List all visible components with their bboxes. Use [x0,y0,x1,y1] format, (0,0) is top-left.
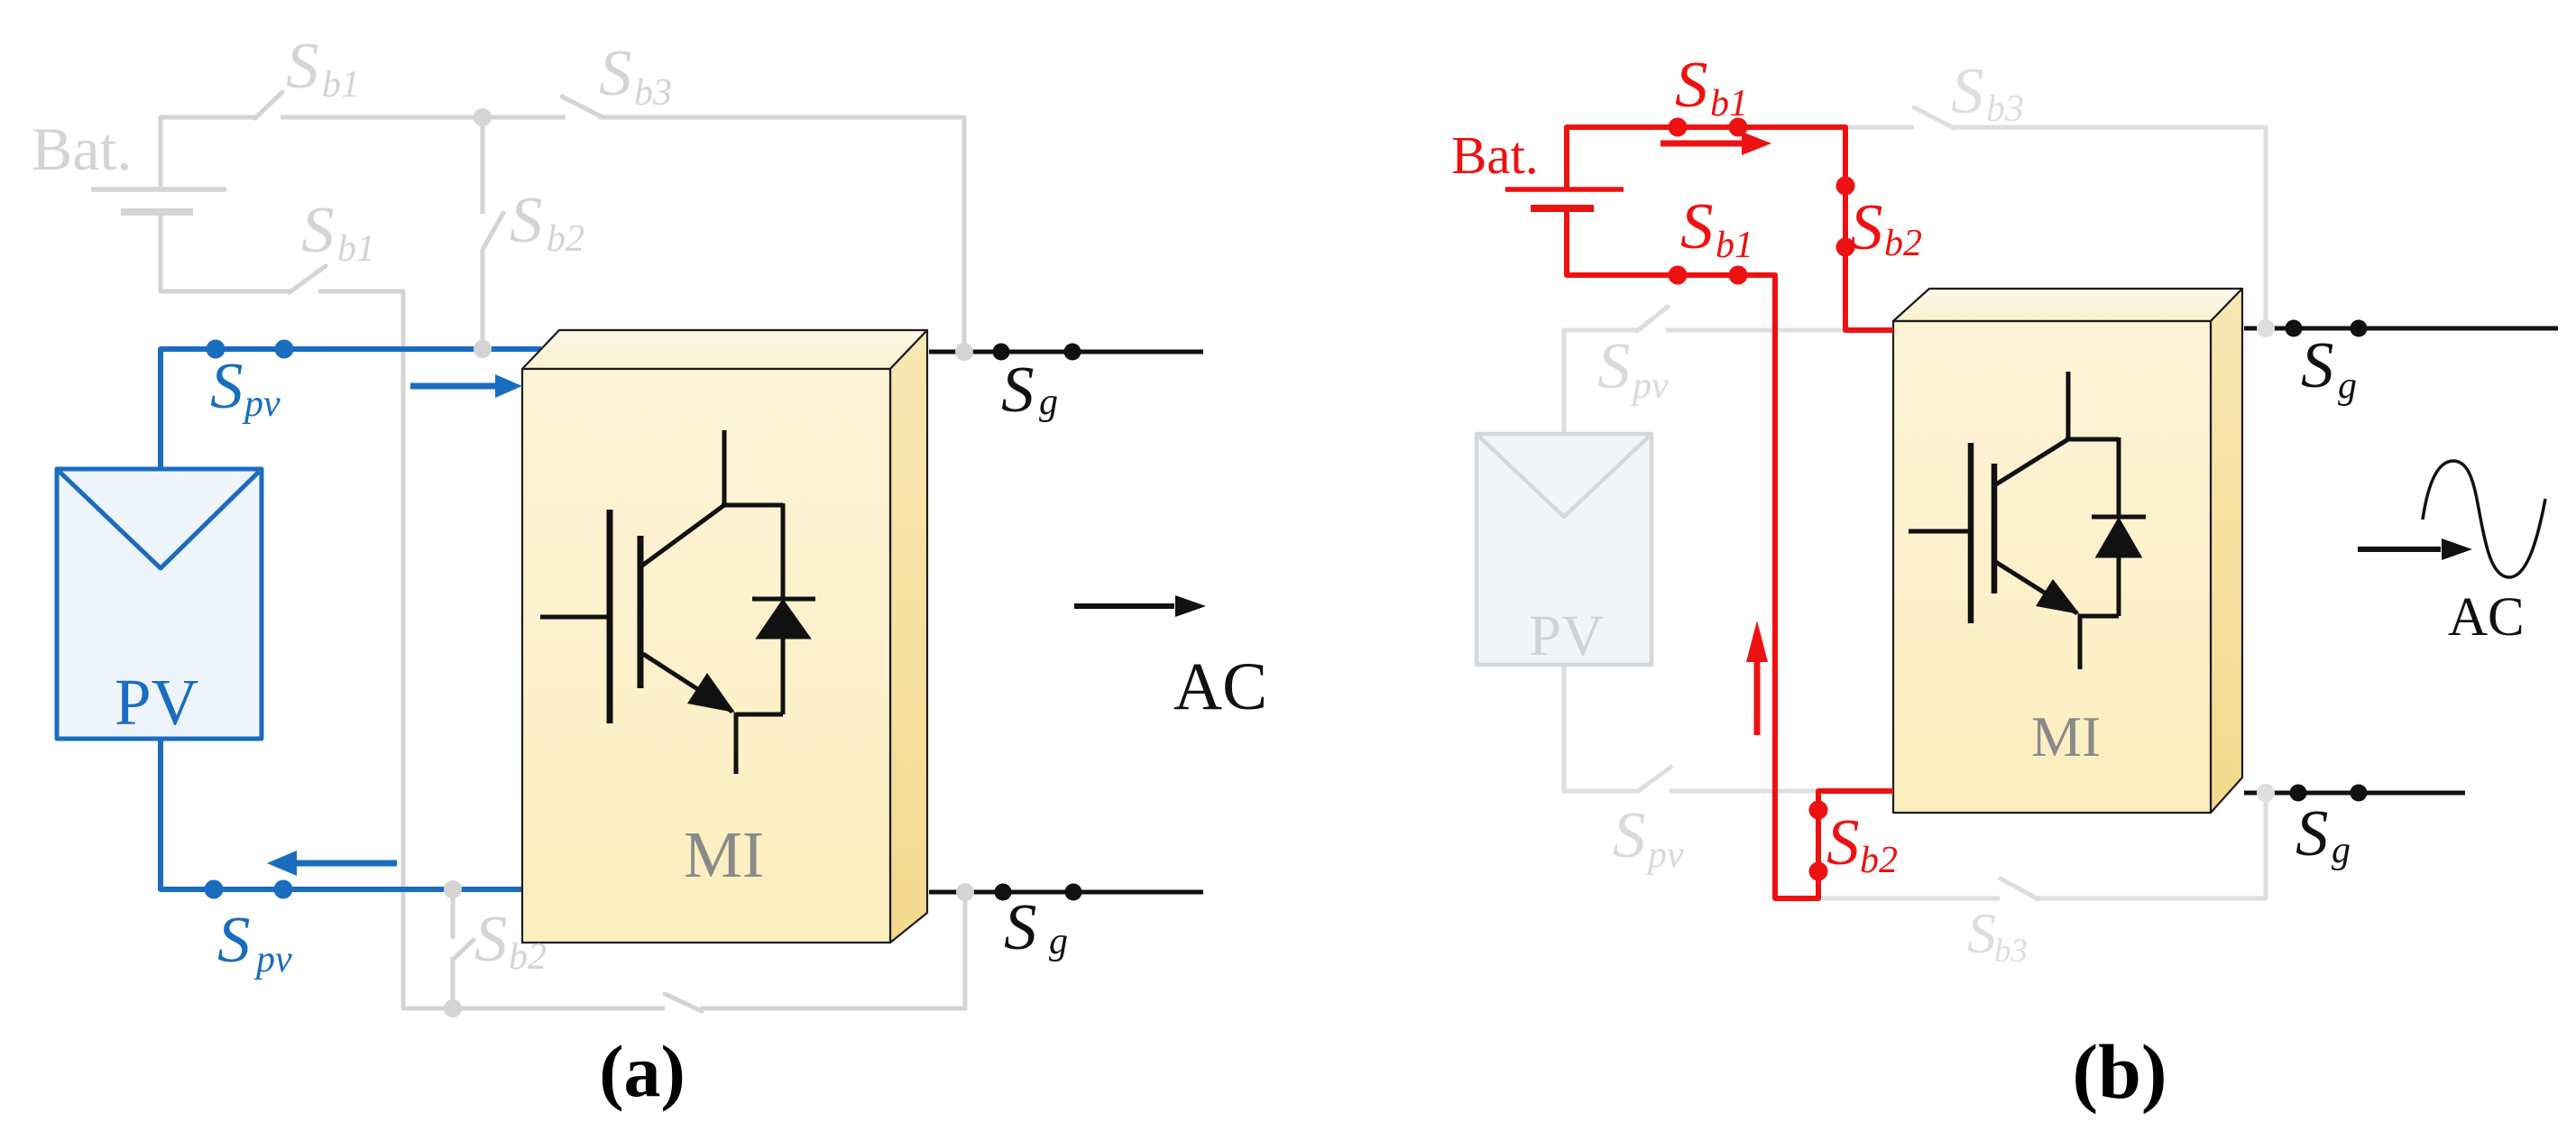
diode D1 cathode bar [752,597,815,602]
svg-text:b3: b3 [1994,933,2028,970]
battery Bat. short plate [121,208,193,216]
IGBT gate bar [607,510,613,723]
wire: battery top lead to Sb1 top [161,117,255,190]
node: Sg top / Sb3 (b) [2257,319,2275,337]
grid wire Sg bottom (panel a) [929,890,1203,895]
wire: battery bottom lead to Sb1 lower [161,216,290,291]
svg-text:b1: b1 [322,64,360,106]
MI front face (panel b) [1893,321,2211,813]
svg-text:pv: pv [1630,365,1669,407]
svg-text:Bat.: Bat. [32,115,132,183]
svg-text:b2: b2 [509,936,547,978]
svg-text:b1: b1 [1710,83,1748,124]
svg-text:AC: AC [1173,649,1267,724]
wire: Sb3 top right segment down to Sg top node [1952,127,2266,327]
wire: Sb2 bottom branch lower lead to bottom rail [451,957,455,1008]
blue arrow out of MI bottom (panel a) [295,860,397,867]
svg-text:S: S [210,349,244,422]
svg-text:(b): (b) [2072,1028,2167,1115]
PV module box (panel a) [57,469,262,739]
diode D1 triangle [759,603,807,637]
IGBT gate lead [540,615,607,620]
IGBT gate lead (b) [1909,529,1971,534]
grid wire Sg top (panel b) [2244,327,2558,331]
diode D2 bottom lead [2117,554,2121,616]
svg-text:S: S [301,193,335,266]
wire: battery+ to Sb1 top closed to Sb2 top (red) [1567,127,1893,330]
svg-text:b3: b3 [634,72,672,114]
switch Sg contact dots (panel a) [993,344,1082,901]
AC sine wave (panel b) [2423,461,2545,577]
IGBT emitter diagonal [643,654,732,712]
switch Sb1 bottom closed dots [1669,266,1688,285]
svg-text:S: S [1951,54,1984,127]
node: Sb2 / PV- junction [444,880,462,898]
svg-text:S: S [1004,890,1037,963]
svg-text:g: g [2332,830,2351,871]
PV chevron [60,472,259,568]
grid wire Sg top (panel a) [929,350,1203,354]
microinverter MI box (panel a) [522,330,927,943]
wire: bottom rail right segment up to MI AC bottom node [700,893,965,1008]
svg-text:S: S [1613,798,1646,871]
switch Sg contact dots (panel b) [2286,320,2368,802]
svg-text:S: S [1850,190,1883,263]
PANEL B [1477,107,2266,899]
IGBT collector diagonal [642,505,724,566]
svg-text:(a): (a) [599,1030,685,1112]
wire: Sb3 top (panel b) left segment [1845,125,1914,130]
wire: battery- to Sb1 bottom closed, down and into MI via Sb2 bottom (red) [1567,212,1893,898]
svg-text:b2: b2 [547,218,584,260]
svg-text:g: g [1049,921,1068,962]
node: Sb2 bottom rail junction [444,999,462,1017]
svg-text:pv: pv [1645,834,1684,876]
wire: Sb2 top branch lower lead to PV+ node [481,249,485,350]
svg-text:PV: PV [115,666,198,739]
wire: Spv bottom branch left [1564,665,1638,791]
node: Sb2 top junction [474,108,492,126]
IGBT emitter terminal (b) [2078,614,2083,669]
diode D1 bottom lead [781,635,786,714]
wire: PV+ blue top [161,349,541,469]
grid wire Sg bottom (panel b) [2244,791,2465,796]
switch Sb2 bottom branch upper lead [451,890,455,939]
diode D2 top lead [2117,437,2121,517]
svg-text:pv: pv [253,939,292,980]
svg-text:b1: b1 [337,228,375,270]
svg-text:S: S [1597,329,1631,402]
diode D2 cathode bar [2092,515,2146,520]
MI top face [522,330,927,369]
svg-text:b2: b2 [1884,223,1922,264]
PV module box (panel b) [1477,434,1651,665]
MI top face (panel b) [1893,289,2242,321]
svg-text:g: g [2338,365,2357,407]
red arrow up (panel b) [1754,658,1761,735]
battery Bat. short plate (red) [1531,205,1594,212]
wire: Spv top branch (panel b, open) left [1564,330,1637,435]
IGBT emitter arrowhead (b) [2036,579,2080,614]
switch Sb2 top closed dots [1836,177,1855,196]
svg-text:S: S [474,902,508,975]
svg-text:S: S [2295,796,2329,870]
PV chevron (panel b) [1479,437,1649,517]
microinverter MI box (panel b) [1893,289,2242,813]
switch Sb3 bottom blade (panel b) [2001,879,2038,899]
svg-text:S: S [1680,189,1714,262]
wire: diode bottom to emitter (b) [2080,614,2119,619]
svg-text:S: S [286,29,319,102]
node: MI AC top / Sb3 [955,343,973,361]
switch Sb2 top branch upper lead [481,117,485,214]
red contact dots (panel b) [1669,118,1855,881]
svg-text:S: S [2301,328,2334,401]
svg-text:S: S [510,183,543,256]
svg-text:b1: b1 [1716,225,1753,266]
svg-text:g: g [1039,382,1058,423]
svg-text:AC: AC [2448,587,2525,648]
IGBT emitter arrowhead [687,673,735,713]
IGBT collector terminal (b) [2066,372,2071,440]
svg-text:S: S [1675,48,1708,121]
switch Sb2 bottom closed dots [1809,801,1828,820]
node: Sg bottom / Sb3 (b) [2257,784,2275,802]
AC output arrow (panel a) [1074,603,1174,609]
IGBT U1 (panel a) [540,430,815,774]
svg-text:S: S [1001,353,1035,426]
IGBT U2 (panel b) [1909,372,2146,669]
switch Sb3 top blade (panel b) [1914,107,1954,128]
switch Spv top blade (panel b) [1637,307,1668,331]
svg-text:S: S [217,903,251,976]
IGBT emitter terminal [734,713,739,774]
MI right face [890,330,927,943]
PANEL A [57,92,965,1011]
junction dots gray (panel b) [2257,319,2275,802]
wire: Spv top right segment to MI [1666,328,1849,333]
switch Sb2 top blade (open) [483,213,503,248]
switch Sb3 bottom blade (open) [665,994,702,1011]
diode D1 top lead [781,503,786,599]
svg-text:b3: b3 [1986,88,2024,130]
switch Spv bottom blade (panel b) [1638,767,1671,791]
IGBT body bar [638,536,644,688]
switch Sb1 top closed dots [1669,118,1688,137]
IGBT gate bar (b) [1968,443,1974,623]
blue arrow into MI (panel a) [410,383,498,390]
wire: Sb3 bottom (panel b) left segment [1775,897,2000,901]
AC output arrow (panel b) [2358,547,2441,552]
node: MI AC bottom / rail [956,883,974,901]
IGBT emitter diagonal (b) [1994,561,2077,613]
svg-text:MI: MI [684,818,764,891]
MI right face (panel b) [2211,289,2242,813]
wire: PV- blue bottom [161,739,523,889]
IGBT collector terminal [722,430,727,506]
wire: Sb3 top to MI AC top node [599,117,964,350]
svg-text:S: S [1967,901,1996,965]
diode D2 triangle [2099,521,2139,556]
wire: Sb1 top to Sb3 top [281,115,566,120]
red arrow right (panel b top) [1661,141,1744,147]
wire: collector to diode top (b) [2065,437,2119,442]
node: Sb2 / PV+ junction [474,340,492,358]
junction dots (panel a) [444,108,974,1017]
svg-text:b2: b2 [1860,840,1898,881]
svg-text:S: S [1826,805,1860,879]
switch Sb3 top blade (open) [562,97,601,116]
switch Sb1 lower blade (open) [290,266,326,292]
RED battery path (panel b) [1505,127,1893,898]
switch Sb2 bottom blade (open) [455,940,474,958]
IGBT collector diagonal (b) [1996,439,2068,484]
wire: Sb3 bottom right segment up to Sg bottom node [2037,794,2266,898]
switch Sb1 top blade (open) [255,92,282,118]
MI front face [522,369,890,943]
switch Spv top closed contact dots (panel a) [205,340,294,899]
svg-text:S: S [599,36,632,109]
wire: Spv bottom right segment [1670,789,1820,794]
svg-text:PV: PV [1529,603,1604,668]
svg-text:Bat.: Bat. [1451,125,1539,185]
battery Bat. long plate (red) [1505,187,1624,192]
IGBT body bar (b) [1992,464,1998,594]
svg-text:MI: MI [2031,705,2101,768]
wire: collector to diode top [722,503,783,508]
svg-text:pv: pv [242,383,281,425]
wire: diode bottom to emitter [736,713,783,717]
battery Bat. long plate [91,187,226,192]
wire: Sb1 lower to left rail down to bottom rail [318,291,665,1008]
